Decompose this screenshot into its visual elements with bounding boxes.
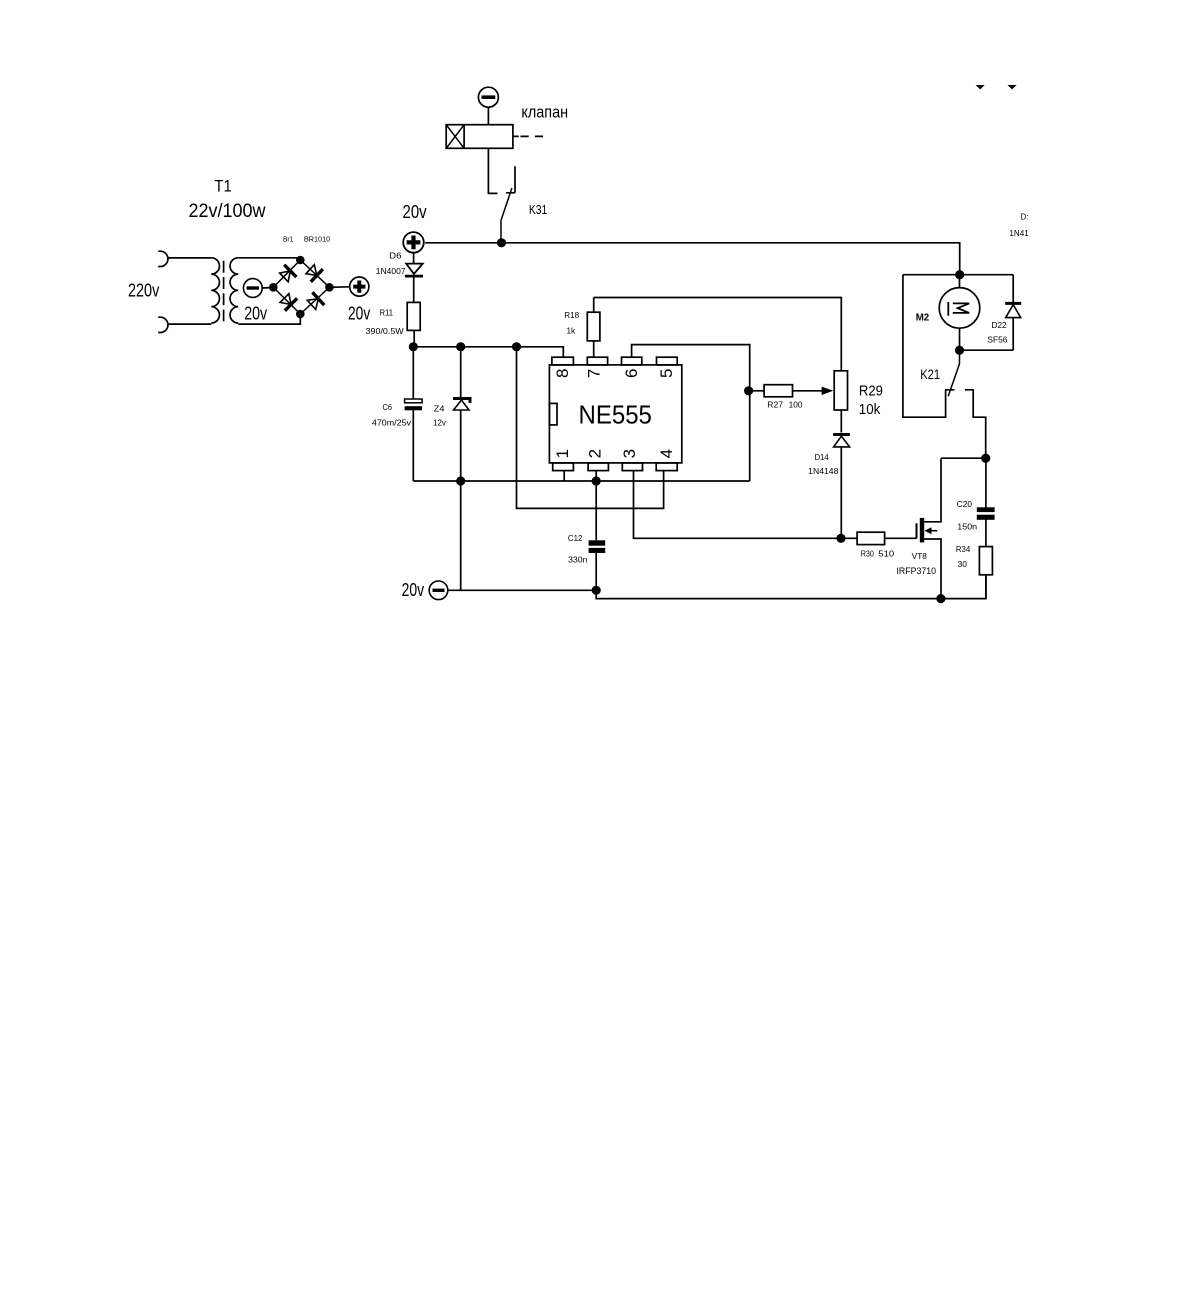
valve actuator dashed link: [513, 135, 543, 137]
node top rail to motor branch: [955, 270, 964, 279]
resistor R27 100: [749, 385, 834, 410]
svg-text:R11: R11: [380, 308, 394, 317]
svg-text:20v: 20v: [244, 302, 267, 323]
node bridge right: [325, 283, 334, 292]
wire R18 top to R29 top: [594, 298, 842, 371]
IC U1 pad pin 6: [622, 357, 642, 365]
wire K21 left bypass: [903, 275, 955, 418]
svg-text:10k: 10k: [859, 402, 881, 418]
resistor R11 390/0.5W: [366, 302, 421, 336]
wire rail A (R11/C6/Z4/pin8 supply): [413, 347, 563, 357]
svg-text:NE555: NE555: [579, 402, 652, 430]
svg-text:220v: 220v: [128, 279, 160, 300]
node motor bottom: [955, 346, 964, 355]
capacitor C6 470m/25v: [372, 347, 422, 481]
svg-text:1N41: 1N41: [1009, 229, 1029, 238]
wire top rail 20v: [425, 243, 960, 275]
svg-text:30: 30: [958, 560, 968, 569]
resistor R34 30: [956, 545, 993, 599]
svg-text:R34: R34: [956, 545, 971, 554]
svg-text:20v: 20v: [402, 579, 425, 600]
wire bridge right node to plus terminal: [329, 286, 349, 289]
node D14 / R30 junction: [836, 534, 845, 543]
node R27 / pin6 junction: [744, 386, 753, 395]
terminal 20v minus (secondary): [243, 279, 267, 324]
transformer T1 primary winding: [211, 258, 219, 323]
svg-text:4: 4: [657, 449, 676, 458]
bridge diode top-left: [280, 265, 297, 282]
bridge rectifier Br1 BR1010 labels: [283, 235, 330, 244]
wire pin 2 to C12: [595, 471, 597, 541]
node C20 / drain junction: [981, 454, 990, 463]
IC U1 pad pin 3: [622, 463, 642, 471]
wire pin 1 down: [563, 471, 565, 481]
svg-text:BR1010: BR1010: [304, 235, 330, 244]
svg-text:1: 1: [553, 449, 572, 458]
node MOSFET source on bottom rail: [936, 594, 945, 603]
wire bottom rail right (stepped): [596, 575, 986, 599]
diode D22 SF56: [987, 275, 1021, 351]
IC U1 pad pin 1: [553, 463, 574, 471]
node K31 junction on top rail: [497, 238, 506, 247]
node rail A / Z4: [456, 342, 465, 351]
svg-text:VT8: VT8: [912, 552, 928, 561]
svg-text:Br1: Br1: [283, 235, 293, 244]
bridge rectifier Br1 diamond wires: [273, 260, 329, 314]
svg-text:20v: 20v: [403, 201, 428, 222]
wire pin6 loop to R27 junction: [632, 345, 750, 481]
svg-text:T1: T1: [214, 176, 231, 195]
node rail A / C6: [409, 342, 418, 351]
svg-text:100: 100: [789, 401, 803, 410]
svg-text:D6: D6: [389, 252, 402, 261]
svg-text:R29: R29: [859, 383, 883, 399]
wire primary bottom lead: [168, 323, 212, 325]
IC U1 pad pin 4: [656, 463, 677, 471]
svg-text:1N4148: 1N4148: [808, 467, 839, 476]
wire plus terminal to D6: [413, 253, 415, 263]
wire minus terminal to bridge left node: [262, 287, 273, 290]
bridge diode bottom-right: [307, 292, 324, 309]
stray mark left: [976, 85, 985, 89]
IC U1 pad pin 8: [552, 357, 574, 365]
wire motor bottom to D22: [960, 349, 1014, 351]
svg-text:R27: R27: [767, 401, 783, 410]
IC U1 pad pin 2: [588, 463, 608, 471]
svg-text:20v: 20v: [348, 302, 371, 323]
wire motor top branch: [903, 274, 1013, 276]
transformer T1 primary terminal hook top: [158, 251, 168, 266]
svg-text:D22: D22: [992, 321, 1008, 330]
svg-text:390/0.5W: 390/0.5W: [366, 327, 405, 336]
terminal 20v plus (secondary): [348, 277, 371, 323]
resistor R30 510: [857, 532, 916, 558]
svg-text:K31: K31: [529, 202, 547, 217]
svg-text:22v/100w: 22v/100w: [189, 201, 266, 222]
wire valve terminal lead: [487, 107, 489, 125]
potentiometer R29 10k: [834, 371, 883, 418]
terminal minus (valve supply): [478, 87, 498, 107]
capacitor C12 330n: [568, 534, 605, 590]
wire V+ branch to pin 4: [517, 347, 664, 509]
diode D6 labels: [376, 252, 406, 277]
svg-text:5: 5: [657, 369, 676, 378]
svg-text:3: 3: [620, 449, 639, 458]
wire drain rail to C20 junction: [941, 457, 986, 459]
wire R29 to D14: [840, 410, 842, 433]
bridge diode bottom-left: [280, 294, 297, 311]
svg-text:7: 7: [584, 369, 603, 378]
terminal 20v plus (top rail): [403, 201, 428, 253]
diode D14 1N4148: [808, 435, 850, 539]
zener diode Z4 12v: [433, 347, 470, 591]
svg-text:C6: C6: [383, 403, 393, 412]
resistor R18 1k: [564, 298, 600, 358]
svg-text:D:: D:: [1021, 213, 1029, 222]
svg-text:R18: R18: [564, 311, 579, 320]
svg-text:M2: M2: [916, 311, 930, 323]
bridge diode top-right: [306, 265, 323, 282]
svg-text:D14: D14: [815, 453, 830, 462]
wire pin 3 to gate line: [634, 471, 858, 539]
IC U1 NE555 body: [549, 365, 681, 463]
node rail A / V+ branch: [512, 342, 521, 351]
svg-text:330n: 330n: [568, 556, 587, 565]
switch K31 blade: [501, 188, 512, 243]
svg-text:IRFP3710: IRFP3710: [897, 566, 937, 576]
svg-text:8: 8: [553, 369, 572, 378]
IC U1 pin numbers: [553, 369, 676, 459]
transformer T1 core: [223, 261, 225, 322]
svg-text:2: 2: [585, 449, 604, 458]
wire D6 to R11: [413, 277, 415, 302]
IC U1 pad pin 5: [657, 357, 678, 365]
IC U1 pad pin 7: [587, 357, 607, 365]
wire valve to switch K31: [488, 148, 497, 193]
switch K31 fixed contact: [506, 166, 515, 193]
svg-text:470m/25v: 470m/25v: [372, 418, 411, 427]
svg-text:Z4: Z4: [434, 405, 445, 414]
svg-text:1N4007: 1N4007: [376, 267, 406, 276]
wire primary top lead: [168, 257, 212, 259]
wire secondary top lead: [238, 258, 300, 260]
svg-text:510: 510: [878, 550, 895, 559]
svg-text:C20: C20: [957, 500, 973, 509]
node bridge top: [296, 256, 305, 265]
switch K21 blade: [948, 350, 959, 396]
wire R11 to rail A: [413, 330, 415, 346]
transformer T1 secondary winding: [230, 258, 238, 323]
node C12 bottom rail: [592, 586, 601, 595]
svg-text:150n: 150n: [957, 523, 977, 532]
svg-text:R30: R30: [861, 550, 875, 559]
transistor VT8 IRFP3710: [897, 458, 942, 598]
diode D6: [405, 264, 423, 277]
stray mark right: [1008, 85, 1017, 89]
transformer T1 primary terminal hook bottom: [158, 317, 168, 332]
svg-text:C12: C12: [568, 534, 583, 543]
svg-text:клапан: клапан: [521, 102, 568, 121]
capacitor C20 150n: [957, 458, 995, 546]
svg-text:SF56: SF56: [987, 336, 1008, 345]
motor M2: [916, 275, 980, 351]
svg-text:6: 6: [622, 369, 641, 378]
svg-text:1k: 1k: [567, 326, 577, 335]
wire bottom rail left: [448, 589, 596, 591]
node Z4 rail B: [456, 476, 465, 485]
svg-text:12v: 12v: [433, 418, 446, 427]
switch K21 right contact to drain node: [965, 390, 986, 458]
svg-text:K21: K21: [920, 367, 940, 382]
node bridge bottom: [296, 310, 305, 319]
transformer T1 label: [128, 176, 266, 300]
solenoid valve клапан body: [446, 102, 568, 148]
node bridge left: [269, 283, 278, 292]
wire rail B (ground-ish horizontal): [413, 480, 749, 482]
terminal 20v minus (bottom rail): [402, 579, 448, 600]
node pin2 rail B: [592, 476, 601, 485]
wire secondary bottom lead: [238, 314, 300, 324]
